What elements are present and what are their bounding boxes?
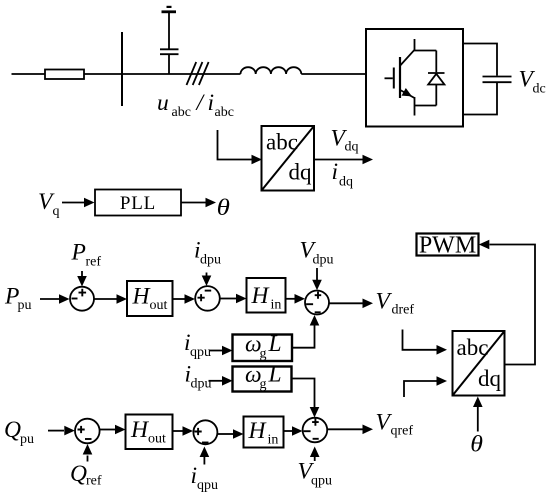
svg-text:/: /: [195, 90, 206, 116]
svg-text:g: g: [260, 347, 267, 362]
svg-text:u: u: [157, 90, 169, 116]
svg-text:qpu: qpu: [311, 474, 332, 489]
svg-text:dq: dq: [478, 366, 502, 391]
svg-text:abc: abc: [457, 335, 489, 360]
svg-text:V: V: [376, 289, 393, 315]
svg-text:qpu: qpu: [197, 478, 218, 493]
svg-text:q: q: [53, 204, 60, 219]
svg-text:pu: pu: [20, 432, 34, 447]
svg-text:dpu: dpu: [313, 253, 334, 268]
svg-text:abc: abc: [215, 105, 234, 120]
svg-text:ref: ref: [86, 474, 102, 489]
svg-text:ref: ref: [86, 255, 102, 270]
svg-text:in: in: [271, 298, 282, 313]
svg-text:L: L: [268, 362, 282, 388]
svg-text:Q: Q: [4, 417, 21, 443]
svg-text:PLL: PLL: [120, 193, 156, 214]
svg-text:dpu: dpu: [191, 377, 212, 392]
svg-text:dq: dq: [339, 175, 353, 190]
svg-text:pu: pu: [18, 298, 32, 313]
svg-text:Q: Q: [70, 461, 87, 487]
svg-text:P: P: [71, 240, 86, 266]
svg-text:PWM: PWM: [419, 232, 476, 258]
svg-text:abc: abc: [172, 105, 191, 120]
svg-text:H: H: [130, 417, 150, 443]
svg-text:i: i: [332, 159, 339, 185]
svg-text:H: H: [248, 418, 268, 444]
svg-text:dq: dq: [345, 140, 359, 155]
svg-text:qref: qref: [391, 424, 414, 439]
svg-text:abc: abc: [266, 130, 298, 155]
svg-text:dref: dref: [392, 303, 415, 318]
svg-text:out: out: [148, 432, 166, 447]
svg-text:out: out: [150, 298, 168, 313]
svg-text:dq: dq: [289, 160, 313, 185]
svg-text:θ: θ: [470, 432, 483, 458]
svg-text:dpu: dpu: [200, 253, 221, 268]
svg-text:θ: θ: [217, 195, 230, 221]
svg-text:H: H: [132, 284, 152, 310]
svg-text:L: L: [268, 331, 282, 357]
svg-text:qpu: qpu: [190, 345, 211, 360]
svg-text:in: in: [268, 433, 279, 448]
svg-text:i: i: [208, 90, 215, 116]
svg-text:g: g: [260, 377, 267, 392]
svg-text:H: H: [251, 283, 271, 309]
svg-text:dc: dc: [533, 82, 546, 97]
